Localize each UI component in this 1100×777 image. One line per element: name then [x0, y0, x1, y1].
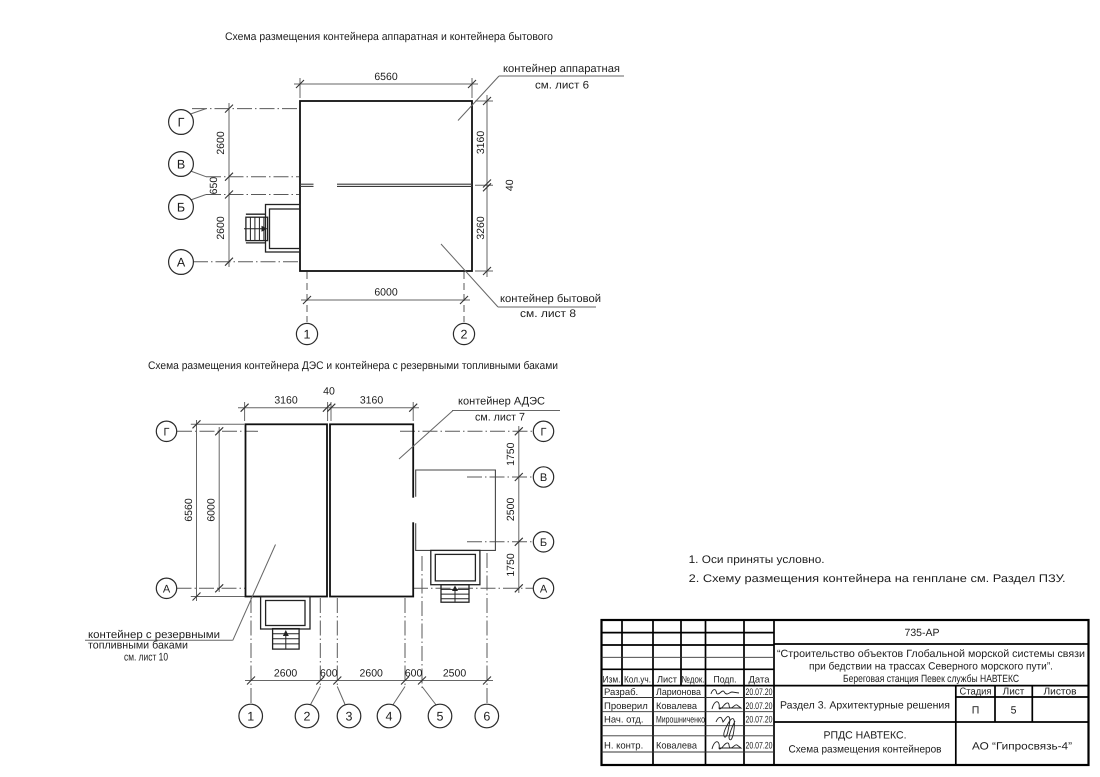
svg-text:Схема размещения контейнера ДЭ: Схема размещения контейнера ДЭС и контей… [148, 360, 558, 372]
svg-text:В: В [540, 472, 547, 484]
svg-text:Листов: Листов [1044, 687, 1077, 698]
svg-text:2: 2 [461, 328, 468, 342]
svg-text:2600: 2600 [274, 668, 298, 680]
svg-text:2500: 2500 [443, 668, 467, 680]
svg-text:5: 5 [437, 710, 444, 724]
svg-text:1: 1 [304, 328, 311, 342]
svg-text:В: В [177, 158, 185, 172]
svg-text:4: 4 [386, 710, 393, 724]
svg-text:№док.: №док. [682, 675, 705, 686]
svg-text:П: П [972, 705, 980, 717]
svg-text:2600: 2600 [215, 216, 227, 240]
svg-text:см. лист 8: см. лист 8 [520, 308, 576, 320]
svg-text:контейнер АДЭС: контейнер АДЭС [458, 396, 545, 408]
svg-text:40: 40 [323, 386, 335, 398]
svg-text:“Строительство объектов Глобал: “Строительство объектов Глобальной морск… [777, 648, 1085, 660]
svg-text:Подп.: Подп. [714, 675, 737, 686]
svg-text:Г: Г [541, 426, 547, 438]
svg-text:40: 40 [504, 179, 516, 191]
svg-text:650: 650 [208, 177, 220, 195]
svg-text:Разраб.: Разраб. [604, 687, 638, 698]
svg-text:Ковалева: Ковалева [656, 701, 698, 712]
svg-text:6000: 6000 [374, 287, 398, 299]
svg-text:при бедствии на трассах Северн: при бедствии на трассах Северного морско… [809, 661, 1053, 673]
svg-text:600: 600 [405, 668, 423, 680]
svg-text:Б: Б [540, 537, 547, 549]
svg-text:6560: 6560 [183, 498, 195, 522]
svg-text:600: 600 [320, 668, 338, 680]
svg-text:контейнер бытовой: контейнер бытовой [500, 293, 601, 305]
svg-text:Схема размещения контейнера ап: Схема размещения контейнера аппаратная и… [225, 31, 553, 43]
svg-text:Проверил: Проверил [604, 701, 648, 712]
svg-text:2600: 2600 [360, 668, 384, 680]
svg-text:1750: 1750 [505, 442, 517, 466]
svg-text:3160: 3160 [274, 395, 298, 407]
svg-text:А: А [177, 256, 186, 270]
svg-text:2600: 2600 [215, 131, 227, 155]
svg-text:см. лист 6: см. лист 6 [535, 80, 589, 92]
svg-text:см. лист 7: см. лист 7 [475, 412, 525, 424]
svg-text:3: 3 [346, 710, 353, 724]
svg-text:Б: Б [177, 201, 185, 215]
svg-text:20.07.20: 20.07.20 [746, 741, 773, 752]
svg-text:А: А [163, 583, 171, 595]
svg-text:Береговая станция Певек службы: Береговая станция Певек службы НАВТЕКС [843, 673, 1019, 685]
svg-text:Г: Г [178, 116, 185, 130]
svg-text:Изм.: Изм. [603, 675, 621, 686]
svg-text:Стадия: Стадия [960, 687, 992, 698]
svg-text:Кол.уч.: Кол.уч. [624, 675, 651, 686]
svg-text:1. Оси приняты условно.: 1. Оси приняты условно. [689, 554, 825, 566]
svg-text:Г: Г [164, 426, 170, 438]
svg-text:Дата: Дата [749, 675, 771, 686]
svg-text:20.07.20: 20.07.20 [746, 715, 773, 726]
svg-text:6560: 6560 [374, 71, 398, 83]
svg-text:2. Схему размещения контейн: 2. Схему размещения контейнера на генпла… [689, 573, 1066, 585]
svg-text:Лист: Лист [657, 675, 678, 686]
svg-text:2: 2 [304, 710, 311, 724]
svg-text:3160: 3160 [475, 131, 487, 155]
svg-text:контейнер аппаратная: контейнер аппаратная [503, 63, 620, 75]
svg-text:Раздел 3. Архитектурные решени: Раздел 3. Архитектурные решения [780, 700, 950, 712]
svg-text:Ковалева: Ковалева [656, 741, 698, 752]
svg-text:735-АР: 735-АР [904, 627, 939, 639]
svg-text:Нач. отд.: Нач. отд. [604, 715, 643, 726]
svg-text:2500: 2500 [505, 498, 517, 522]
svg-text:6: 6 [483, 710, 490, 724]
svg-text:топливными баками: топливными баками [88, 640, 188, 652]
svg-text:см. лист 10: см. лист 10 [124, 652, 168, 664]
svg-text:РПДС НАВТЕКС.: РПДС НАВТЕКС. [824, 730, 907, 742]
svg-text:20.07.20: 20.07.20 [746, 687, 773, 698]
svg-text:АО “Гипросвязь-4”: АО “Гипросвязь-4” [972, 741, 1073, 753]
svg-text:3160: 3160 [360, 395, 384, 407]
svg-text:Схема размещения контейнеров: Схема размещения контейнеров [789, 744, 942, 756]
svg-text:Н. контр.: Н. контр. [604, 741, 643, 752]
svg-text:3260: 3260 [475, 216, 487, 240]
svg-text:20.07.20: 20.07.20 [746, 701, 773, 712]
svg-text:1750: 1750 [505, 553, 517, 577]
svg-text:1: 1 [247, 710, 254, 724]
svg-text:Ларионова: Ларионова [656, 687, 702, 698]
svg-text:5: 5 [1011, 705, 1017, 717]
svg-text:6000: 6000 [206, 498, 218, 522]
svg-text:Лист: Лист [1003, 687, 1025, 698]
svg-text:Мирошниченко: Мирошниченко [656, 715, 705, 726]
svg-text:А: А [540, 583, 548, 595]
